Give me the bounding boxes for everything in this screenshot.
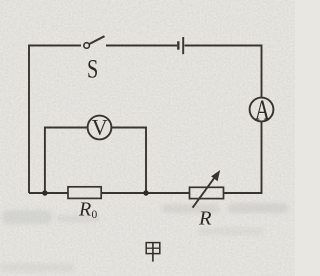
battery cell [177,41,179,49]
node B junction dot [143,190,148,195]
wire: ammeter down to bottom-right corner, left to R [224,121,262,193]
voltmeter branch left wire [45,128,88,194]
voltmeter branch right wire [111,128,146,194]
wire: battery to top-right corner and down to ammeter [185,46,262,98]
svg-text:R: R [78,199,91,221]
rheostat R box [190,187,224,198]
svg-text:0: 0 [92,209,98,221]
svg-text:A: A [255,96,270,127]
rheostat wiper arrow [193,175,217,207]
label 甲 (drawn) [146,243,160,262]
switch S [84,43,90,49]
wire: bottom-left to R0 [29,192,68,194]
voltmeter V1 [88,116,112,140]
svg-text:S: S [87,55,98,84]
node A junction dot [42,190,47,195]
wire: top-left segment [29,46,81,194]
svg-text:R: R [198,208,212,230]
wire: node B to R0 [101,192,146,194]
wire: switch to battery [106,45,177,47]
rheostat arrowhead [212,171,219,180]
ammeter A1 [250,98,274,122]
svg-text:V: V [92,115,108,140]
wire: R to node B [146,192,190,194]
resistor R0 box [68,187,101,199]
